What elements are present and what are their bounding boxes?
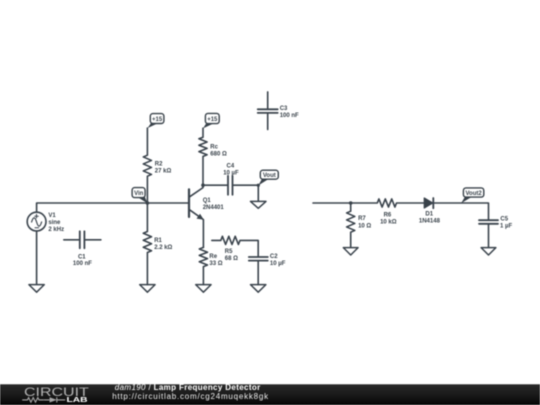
svg-text:+15: +15 [152,117,163,123]
svg-text:10 kΩ: 10 kΩ [380,220,397,226]
svg-text:+15: +15 [207,117,218,123]
svg-text:1N4148: 1N4148 [419,219,441,225]
svg-text:R6: R6 [384,212,392,218]
svg-text:Vin: Vin [134,191,144,197]
svg-text:LAB: LAB [67,395,88,404]
svg-text:R1: R1 [154,238,162,244]
svg-text:2 kHz: 2 kHz [48,227,64,233]
svg-text:Rc: Rc [210,144,218,150]
svg-text:C2: C2 [270,254,278,260]
svg-text:Q1: Q1 [203,198,212,204]
svg-text:C4: C4 [227,163,235,169]
svg-text:http://circuitlab.com/cg24muqe: http://circuitlab.com/cg24muqekk8gk [112,392,269,401]
svg-text:R2: R2 [155,161,163,167]
svg-text:33 Ω: 33 Ω [209,261,222,267]
svg-text:100 nF: 100 nF [73,261,92,267]
svg-text:sine: sine [48,220,61,226]
svg-text:1 µF: 1 µF [500,224,512,230]
svg-text:dam190 / Lamp Frequency Detect: dam190 / Lamp Frequency Detector [115,383,261,392]
svg-text:27 kΩ: 27 kΩ [155,169,172,175]
svg-text:V1: V1 [48,213,56,219]
svg-text:10 µF: 10 µF [270,261,286,267]
svg-text:C1: C1 [78,255,86,261]
svg-text:2N4401: 2N4401 [203,205,225,211]
svg-text:C3: C3 [280,106,288,112]
svg-text:680 Ω: 680 Ω [210,151,227,157]
svg-text:10 µF: 10 µF [223,170,239,176]
svg-text:Re: Re [209,254,217,260]
svg-text:R7: R7 [358,216,366,222]
svg-text:Vout2: Vout2 [465,191,482,197]
svg-text:C5: C5 [500,216,508,222]
svg-text:D1: D1 [425,212,433,218]
svg-text:R5: R5 [225,249,233,255]
svg-text:2.2 kΩ: 2.2 kΩ [154,245,172,251]
svg-text:100 nF: 100 nF [280,113,299,119]
svg-text:68 Ω: 68 Ω [225,256,238,262]
svg-text:Vout: Vout [263,173,276,179]
svg-text:10 Ω: 10 Ω [358,224,371,230]
